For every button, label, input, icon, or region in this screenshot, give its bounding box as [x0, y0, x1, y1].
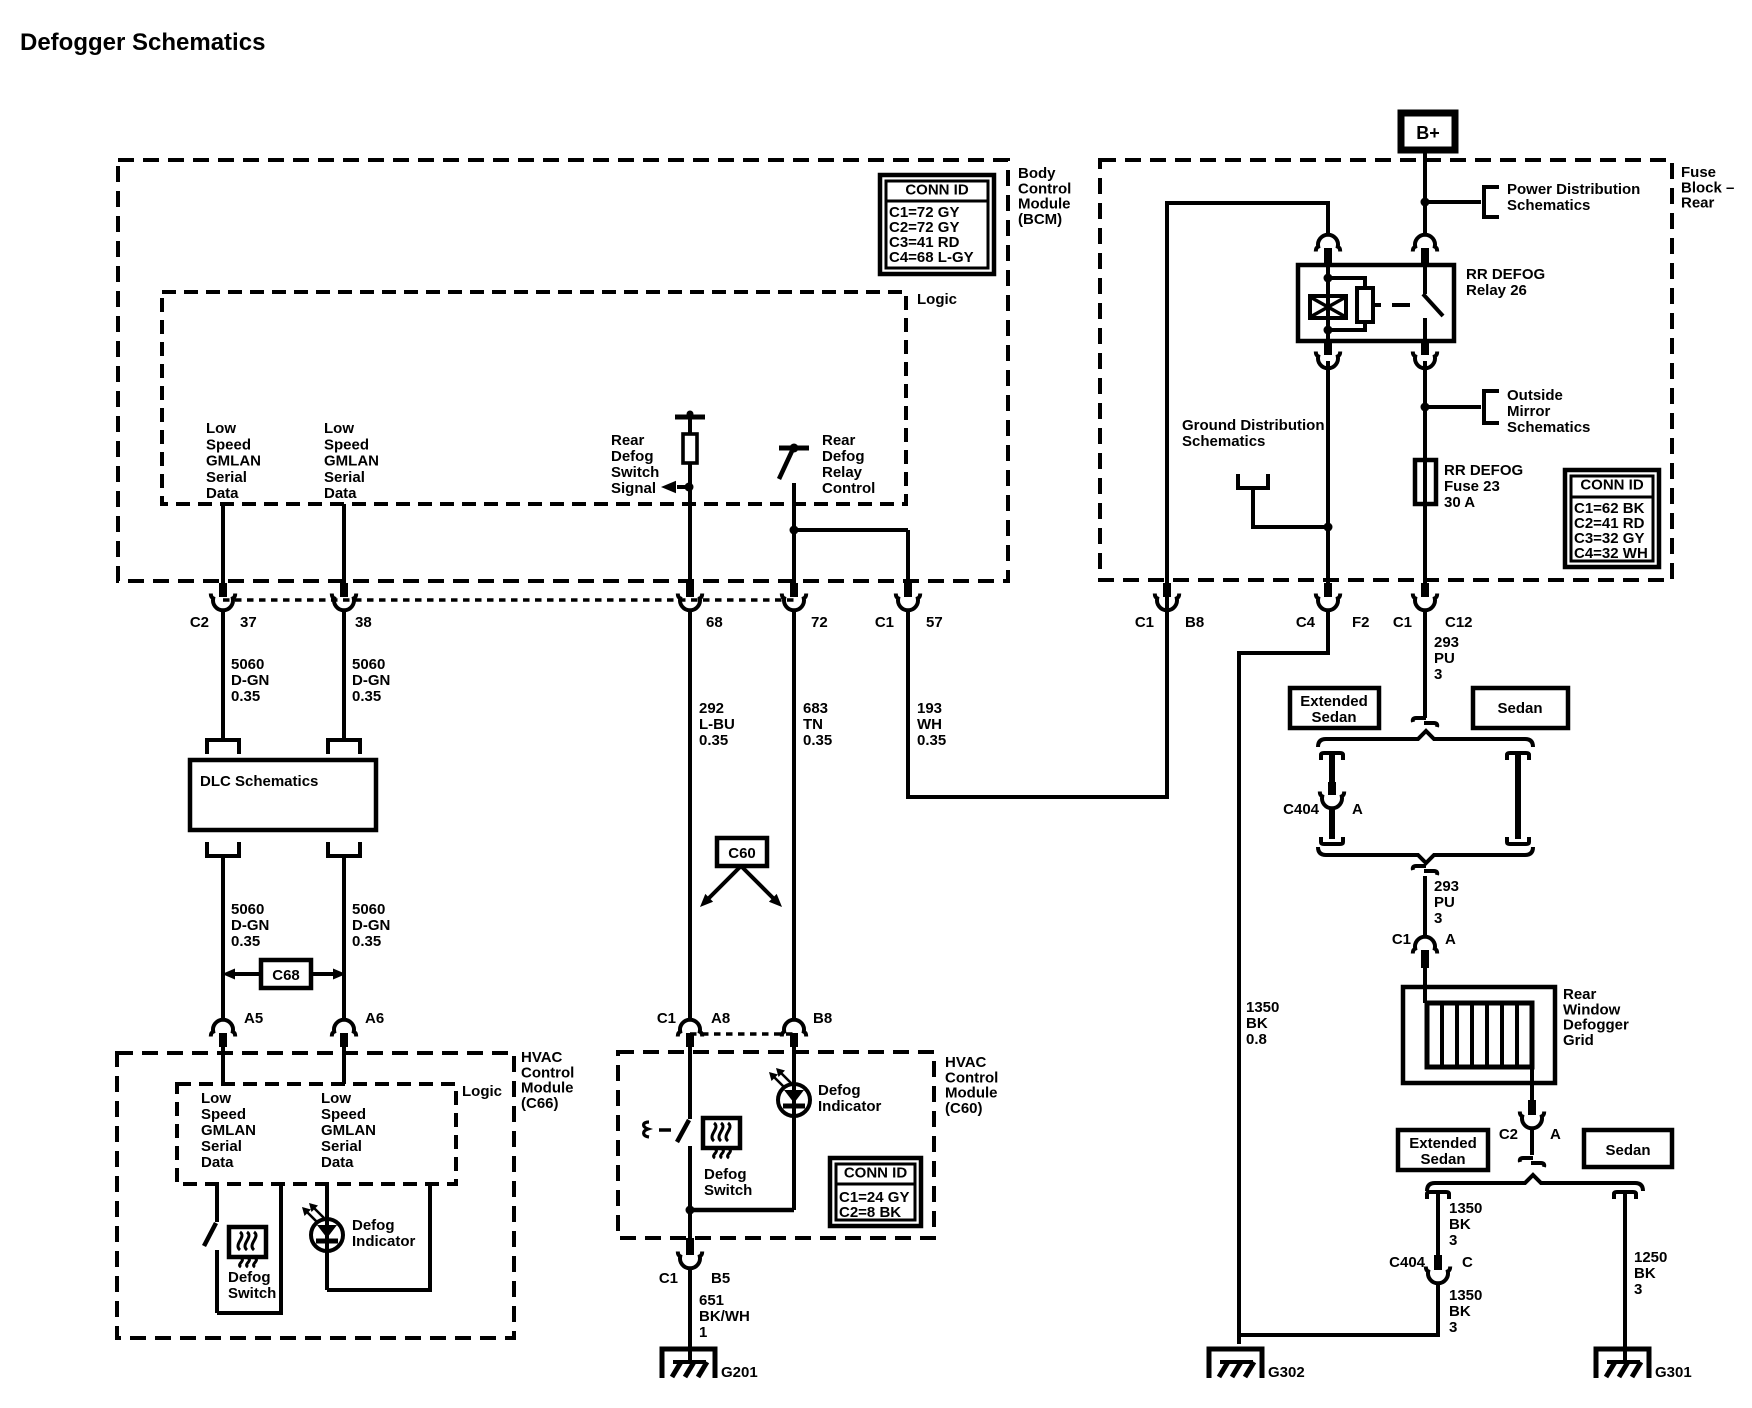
- logic box (BCM): [162, 292, 906, 504]
- connector HVAC C66 pin A5: [211, 1010, 263, 1047]
- svg-text:57: 57: [926, 614, 943, 631]
- ground G201: [662, 1349, 758, 1381]
- svg-text:C404: C404: [1283, 801, 1320, 818]
- svg-text:Mirror: Mirror: [1507, 403, 1551, 420]
- svg-text:A5: A5: [244, 1010, 263, 1027]
- svg-text:C1: C1: [657, 1010, 676, 1027]
- harness dotted line (BCM C1/C2 row): [223, 598, 794, 602]
- svg-text:A: A: [1352, 801, 1363, 818]
- harness leg: extended sedan upper: [1329, 753, 1335, 790]
- svg-text:Low: Low: [206, 420, 236, 437]
- wire: grid output: [1530, 1067, 1534, 1100]
- svg-text:293: 293: [1434, 634, 1459, 651]
- svg-text:B5: B5: [711, 1270, 730, 1287]
- svg-text:Relay 26: Relay 26: [1466, 282, 1527, 299]
- wire label: 651 BK/WH 1: [699, 1292, 750, 1341]
- page ref bracket: outside mirror: [1484, 391, 1499, 423]
- module box: Body Control Module (BCM): [118, 160, 1008, 581]
- connector C404 pin A: [1283, 782, 1363, 818]
- svg-text:293: 293: [1434, 878, 1459, 895]
- svg-text:5060: 5060: [231, 656, 264, 673]
- icon: heated rear window (C60): [703, 1118, 740, 1158]
- node label: Low Speed GMLAN Serial Data (pin 37): [206, 420, 261, 502]
- relay RR DEFOG Relay 26 box: [1298, 265, 1454, 341]
- svg-text:Logic: Logic: [917, 291, 957, 308]
- node: rear defog switch signal supply bar: [675, 411, 705, 418]
- wire: relay coil to C4 F2: [1326, 361, 1330, 586]
- svg-text:0.35: 0.35: [917, 732, 946, 749]
- module box: HVAC Control Module (C60): [618, 1052, 934, 1238]
- connector callout C68: [222, 960, 346, 988]
- svg-text:5060: 5060: [352, 901, 385, 918]
- svg-text:72: 72: [811, 614, 828, 631]
- svg-text:B8: B8: [1185, 614, 1204, 631]
- power node: B+: [1401, 113, 1455, 150]
- wire: relay control branch to pin 57: [790, 526, 909, 587]
- label: Rear Window Defogger Grid: [1563, 986, 1629, 1049]
- svg-text:3: 3: [1449, 1319, 1457, 1336]
- wire: resistor to pin 68: [688, 463, 692, 586]
- svg-text:Switch: Switch: [611, 464, 659, 481]
- label: Power Distribution Schematics: [1507, 181, 1640, 214]
- svg-text:PU: PU: [1434, 894, 1455, 911]
- svg-text:BK: BK: [1246, 1015, 1268, 1032]
- connector C1 pin 57: [875, 583, 943, 631]
- svg-text:Switch: Switch: [228, 1285, 276, 1302]
- title: Defogger Schematics: [20, 29, 265, 56]
- svg-text:BK: BK: [1449, 1216, 1471, 1233]
- svg-text:G301: G301: [1655, 1364, 1692, 1381]
- connector C2 pin 37: [190, 583, 257, 631]
- svg-text:Extended: Extended: [1409, 1135, 1477, 1152]
- svg-text:(C66): (C66): [521, 1095, 559, 1112]
- svg-text:Signal: Signal: [611, 480, 656, 497]
- svg-text:C4: C4: [1296, 614, 1316, 631]
- svg-text:A6: A6: [365, 1010, 384, 1027]
- wire label: 683 TN 0.35: [803, 700, 832, 749]
- harness leg: sedan: [1515, 753, 1521, 839]
- label: Defog Indicator (C66): [352, 1217, 416, 1250]
- svg-text:Logic: Logic: [462, 1083, 502, 1100]
- wire: circuit 293 to grid connector: [1423, 876, 1427, 938]
- svg-text:0.35: 0.35: [699, 732, 728, 749]
- svg-text:PU: PU: [1434, 650, 1455, 667]
- wire: B+ feed: [1423, 150, 1427, 235]
- wire: connector to grid: [1423, 968, 1427, 1003]
- wire: branch to outside mirror: [1425, 405, 1481, 409]
- connector: relay switch bottom pin: [1413, 341, 1437, 368]
- switch: rear defog relay control driver: [779, 444, 809, 480]
- svg-text:Data: Data: [201, 1154, 234, 1171]
- svg-text:Schematics: Schematics: [1507, 419, 1590, 436]
- wire: A5 into logic box: [221, 1047, 225, 1084]
- svg-text:Switch: Switch: [704, 1182, 752, 1199]
- svg-text:Grid: Grid: [1563, 1032, 1594, 1049]
- wire: defog indicator return loop (C66): [327, 1184, 430, 1290]
- svg-text:C68: C68: [272, 967, 300, 984]
- wire: circuit 292 pin68 to HVAC A8: [688, 610, 692, 1020]
- label: Defog Switch (C60): [704, 1166, 752, 1199]
- svg-text:BK/WH: BK/WH: [699, 1308, 750, 1325]
- wire label: 293 PU 3 (lower): [1434, 878, 1459, 927]
- harness leg bracket: sedan top: [1507, 753, 1529, 760]
- node: rear defog switch signal sense junction: [661, 481, 694, 494]
- connector C1 pin A (grid): [1392, 931, 1456, 968]
- svg-text:1350: 1350: [1449, 1287, 1482, 1304]
- connector fuse block pin B8: [1135, 583, 1204, 631]
- connector callout C60: [700, 838, 782, 907]
- variant box: Sedan (upper): [1473, 688, 1568, 728]
- variant brace top: [1318, 731, 1533, 747]
- inline splice symbol (grid out): [1520, 1158, 1544, 1167]
- svg-text:Sedan: Sedan: [1605, 1142, 1650, 1159]
- harness leg bracket: extended sedan top: [1321, 753, 1343, 760]
- wire: supply to resistor: [688, 417, 692, 434]
- connector-ID table (BCM): [880, 175, 994, 274]
- connector: relay switch top pin: [1413, 235, 1437, 266]
- svg-text:F2: F2: [1352, 614, 1370, 631]
- node: outside mirror junction: [1421, 403, 1430, 412]
- switch: defog switch (C60): [677, 1047, 690, 1210]
- svg-text:Schematics: Schematics: [1507, 197, 1590, 214]
- svg-text:C1: C1: [659, 1270, 678, 1287]
- svg-text:Rear: Rear: [1681, 195, 1715, 212]
- connector C2 pin 38: [332, 583, 372, 631]
- svg-text:G201: G201: [721, 1364, 758, 1381]
- svg-text:Defog: Defog: [611, 448, 654, 465]
- wire label: 193 WH 0.35: [917, 700, 946, 749]
- wire: circuit 1250 BK 3: [1623, 1192, 1627, 1363]
- connector-ID table (fuse block): [1565, 470, 1659, 567]
- svg-text:0.35: 0.35: [231, 688, 260, 705]
- svg-text:651: 651: [699, 1292, 724, 1309]
- svg-text:Defog: Defog: [822, 448, 865, 465]
- label: HVAC Control Module (C60): [945, 1054, 998, 1117]
- svg-text:Indicator: Indicator: [818, 1098, 882, 1115]
- svg-text:Rear: Rear: [822, 432, 856, 449]
- switch: defog switch (C66): [204, 1184, 217, 1313]
- page ref bracket: power distribution: [1484, 187, 1499, 217]
- rear window defogger grid: [1403, 987, 1555, 1083]
- wire: circuit 1350 BK 3 upper: [1436, 1192, 1440, 1255]
- svg-text:BK: BK: [1634, 1265, 1656, 1282]
- svg-text:C2=8 BK: C2=8 BK: [839, 1204, 901, 1221]
- connector fuse block pin C12: [1393, 583, 1473, 631]
- svg-text:GMLAN: GMLAN: [206, 453, 261, 470]
- svg-text:Power Distribution: Power Distribution: [1507, 181, 1640, 198]
- wire: circuit 5060 pin38 to DLC: [342, 610, 346, 740]
- svg-text:Sedan: Sedan: [1311, 709, 1356, 726]
- connector bracket: DLC bottom pin 38: [328, 842, 360, 856]
- svg-text:B+: B+: [1416, 123, 1440, 143]
- svg-text:3: 3: [1434, 910, 1442, 927]
- svg-text:TN: TN: [803, 716, 823, 733]
- connector C1 pin 72: [782, 583, 828, 631]
- svg-text:0.35: 0.35: [352, 688, 381, 705]
- connector HVAC C60 pin A8: [657, 1010, 730, 1047]
- svg-text:Sedan: Sedan: [1420, 1151, 1465, 1168]
- svg-text:1350: 1350: [1449, 1200, 1482, 1217]
- resistor: rear defog switch signal pull-up: [683, 434, 697, 463]
- connector: relay coil top pin: [1316, 235, 1340, 266]
- wire: circuit 1350 BK 3 lower: [1239, 1282, 1438, 1335]
- svg-text:Low: Low: [321, 1090, 351, 1107]
- svg-text:A: A: [1550, 1126, 1561, 1143]
- harness leg: extended sedan lower: [1329, 807, 1335, 839]
- wire: A6 into logic box: [342, 1047, 346, 1084]
- wire label: 292 L-BU 0.35: [699, 700, 735, 749]
- connector-ID table (C60): [830, 1158, 921, 1226]
- svg-text:CONN ID: CONN ID: [1580, 477, 1644, 494]
- ground G301: [1596, 1349, 1692, 1381]
- wire: circuit 1350 BK 0.8 to ground: [1239, 610, 1328, 1344]
- variant brace (ground side): [1427, 1175, 1643, 1191]
- icon: heated rear window (C66): [229, 1227, 266, 1267]
- svg-text:Data: Data: [324, 485, 357, 502]
- ground G302: [1209, 1349, 1305, 1381]
- label: RR DEFOG Relay 26: [1466, 266, 1545, 299]
- harness leg bracket: sedan bottom: [1507, 837, 1529, 844]
- fuse: RR DEFOG Fuse 23 30A: [1415, 460, 1436, 504]
- svg-text:Indicator: Indicator: [352, 1233, 416, 1250]
- wire label: 5060 D-GN 0.35 (A6): [352, 901, 390, 950]
- variant brace bottom: [1318, 847, 1533, 863]
- svg-text:38: 38: [355, 614, 372, 631]
- svg-text:C1: C1: [1135, 614, 1154, 631]
- svg-text:RR DEFOG: RR DEFOG: [1466, 266, 1545, 283]
- connector: relay coil bottom pin: [1316, 341, 1340, 368]
- label: Body Control Module (BCM): [1018, 165, 1071, 228]
- connector HVAC C66 pin A6: [332, 1010, 384, 1047]
- svg-text:D-GN: D-GN: [231, 917, 269, 934]
- node: B+ junction: [1421, 198, 1430, 207]
- label: Fuse Block - Rear: [1681, 164, 1734, 212]
- svg-text:0.35: 0.35: [803, 732, 832, 749]
- svg-text:RR DEFOG: RR DEFOG: [1444, 462, 1523, 479]
- label: Logic (C66): [462, 1083, 502, 1100]
- svg-text:3: 3: [1634, 1281, 1642, 1298]
- svg-text:Data: Data: [321, 1154, 354, 1171]
- svg-text:Outside: Outside: [1507, 387, 1563, 404]
- label: Defog Indicator (C60): [818, 1082, 882, 1115]
- wire: fuse to C1 C12: [1423, 504, 1427, 586]
- wire label: 5060 D-GN 0.35 (pin 38): [352, 656, 390, 705]
- svg-text:C2: C2: [190, 614, 209, 631]
- inline splice symbol (below variant brace): [1413, 866, 1437, 875]
- svg-text:Ground Distribution: Ground Distribution: [1182, 417, 1324, 434]
- svg-text:GMLAN: GMLAN: [321, 1122, 376, 1139]
- wire: DLC to HVAC A5: [221, 856, 225, 1020]
- svg-text:D-GN: D-GN: [231, 672, 269, 689]
- label: Logic (BCM): [917, 291, 957, 308]
- wire: circuit 651 to ground: [688, 1267, 692, 1363]
- connector C1 pin 68: [678, 583, 723, 631]
- svg-text:68: 68: [706, 614, 723, 631]
- svg-text:C1: C1: [875, 614, 894, 631]
- label: Ground Distribution Schematics: [1182, 417, 1324, 450]
- svg-text:C4=32 WH: C4=32 WH: [1574, 545, 1648, 562]
- svg-text:Defog: Defog: [228, 1269, 271, 1286]
- node: defog switch output junction: [686, 1206, 695, 1215]
- connector bracket: DLC top pin 37: [207, 740, 239, 754]
- label: Rear Defog Relay Control: [822, 432, 875, 497]
- svg-text:Rear: Rear: [611, 432, 645, 449]
- svg-text:Speed: Speed: [321, 1106, 366, 1123]
- connector HVAC C60 pin B8: [782, 1010, 832, 1047]
- svg-text:Extended: Extended: [1300, 693, 1368, 710]
- svg-text:5060: 5060: [352, 656, 385, 673]
- connector fuse block pin F2: [1296, 583, 1370, 631]
- svg-text:193: 193: [917, 700, 942, 717]
- variant box: Extended Sedan (lower): [1398, 1130, 1488, 1170]
- svg-text:Defog: Defog: [704, 1166, 747, 1183]
- harness dotted line (HVAC C60 row): [690, 1032, 794, 1036]
- module box: Fuse Block - Rear: [1100, 160, 1672, 580]
- wire: circuit 5060 pin37 to DLC: [221, 610, 225, 740]
- svg-text:0.35: 0.35: [352, 933, 381, 950]
- wire: relay switch output: [1423, 361, 1427, 460]
- variant box: Sedan (lower): [1584, 1130, 1672, 1167]
- wire label: 293 PU 3 (upper): [1434, 634, 1459, 683]
- svg-text:37: 37: [240, 614, 257, 631]
- relay coil parallel resistor: [1328, 278, 1373, 330]
- svg-text:Speed: Speed: [201, 1106, 246, 1123]
- connector bracket: DLC top pin 38: [328, 740, 360, 754]
- svg-text:C4=68 L-GY: C4=68 L-GY: [889, 249, 974, 266]
- relay coil: [1310, 265, 1346, 341]
- svg-text:GMLAN: GMLAN: [201, 1122, 256, 1139]
- svg-text:C1: C1: [1392, 931, 1411, 948]
- wire label: 1350 BK 0.8: [1246, 999, 1279, 1048]
- wire: circuit 293 from C12: [1423, 610, 1427, 718]
- relay internal link: [1373, 303, 1410, 307]
- svg-text:292: 292: [699, 700, 724, 717]
- svg-text:CONN ID: CONN ID: [844, 1165, 908, 1182]
- LED: defog indicator (C60): [769, 1047, 810, 1210]
- svg-text:C12: C12: [1445, 614, 1473, 631]
- wire: grid out to splice: [1530, 1127, 1534, 1155]
- node label: Low Speed GMLAN Serial Data (C66 right): [321, 1090, 376, 1171]
- harness leg bracket: extended sedan bottom: [1321, 837, 1343, 844]
- harness leg bracket: extended sedan ground: [1427, 1192, 1449, 1199]
- connector bracket: DLC bottom pin 37: [207, 842, 239, 856]
- connector C404 pin C: [1389, 1254, 1473, 1283]
- svg-text:Serial: Serial: [201, 1138, 242, 1155]
- connector C1 pin B5: [659, 1238, 730, 1287]
- svg-text:C2: C2: [1499, 1126, 1518, 1143]
- svg-text:D-GN: D-GN: [352, 672, 390, 689]
- svg-text:C404: C404: [1389, 1254, 1426, 1271]
- connector C2 pin A (grid out): [1499, 1100, 1561, 1143]
- wire: GMLAN serial data pin 37 inside BCM: [221, 504, 225, 586]
- wire label: 1250 BK 3: [1634, 1249, 1667, 1298]
- svg-text:Control: Control: [822, 480, 875, 497]
- svg-text:C1: C1: [1393, 614, 1412, 631]
- svg-text:Sedan: Sedan: [1497, 700, 1542, 717]
- svg-text:30 A: 30 A: [1444, 494, 1475, 511]
- box: DLC Schematics: [190, 760, 376, 830]
- svg-text:3: 3: [1449, 1232, 1457, 1249]
- wire: B8 riser to relay coil: [1167, 203, 1328, 610]
- svg-text:L-BU: L-BU: [699, 716, 735, 733]
- LED: defog indicator (C66): [302, 1184, 343, 1290]
- label: HVAC Control Module (C66): [521, 1049, 574, 1112]
- svg-text:A8: A8: [711, 1010, 730, 1027]
- wire: defog switch return loop (C66): [217, 1184, 281, 1313]
- svg-text:Defog: Defog: [352, 1217, 395, 1234]
- svg-text:A: A: [1445, 931, 1456, 948]
- svg-text:Speed: Speed: [206, 436, 251, 453]
- logic box (C66): [177, 1084, 456, 1184]
- svg-text:Fuse 23: Fuse 23: [1444, 478, 1500, 495]
- svg-text:B8: B8: [813, 1010, 832, 1027]
- relay switch: [1423, 265, 1443, 341]
- svg-text:D-GN: D-GN: [352, 917, 390, 934]
- svg-text:Speed: Speed: [324, 436, 369, 453]
- svg-text:1: 1: [699, 1324, 707, 1341]
- wire: relay control to pin 72: [792, 483, 796, 586]
- variant box: Extended Sedan (upper): [1290, 688, 1379, 728]
- svg-text:Relay: Relay: [822, 464, 863, 481]
- wire label: 5060 D-GN 0.35 (A5): [231, 901, 269, 950]
- harness leg bracket: sedan ground: [1614, 1192, 1636, 1199]
- label: Defog Switch (C66): [228, 1269, 276, 1302]
- svg-text:Data: Data: [206, 485, 239, 502]
- wire label: 1350 BK 3 (lower): [1449, 1287, 1482, 1336]
- module box: HVAC Control Module (C66): [117, 1053, 514, 1338]
- wire: switch output to pin B5: [688, 1210, 692, 1238]
- switch actuator (C60): [644, 1122, 671, 1137]
- svg-text:Serial: Serial: [324, 469, 365, 486]
- label: RR DEFOG Fuse 23 30 A: [1444, 462, 1523, 511]
- svg-text:CONN ID: CONN ID: [905, 182, 969, 199]
- svg-text:5060: 5060: [231, 901, 264, 918]
- inline splice symbol (below C12): [1413, 718, 1437, 727]
- wire: DLC to HVAC A6: [342, 856, 346, 1020]
- node: ground distribution junction: [1324, 523, 1333, 532]
- svg-text:683: 683: [803, 700, 828, 717]
- svg-text:(C60): (C60): [945, 1100, 983, 1117]
- wire: junction to indicator branch: [690, 1208, 794, 1213]
- label: Outside Mirror Schematics: [1507, 387, 1590, 436]
- svg-text:G302: G302: [1268, 1364, 1305, 1381]
- svg-text:WH: WH: [917, 716, 942, 733]
- svg-text:1250: 1250: [1634, 1249, 1667, 1266]
- svg-text:C60: C60: [728, 845, 756, 862]
- svg-text:Schematics: Schematics: [1182, 433, 1265, 450]
- svg-text:3: 3: [1434, 666, 1442, 683]
- svg-text:DLC Schematics: DLC Schematics: [200, 773, 318, 790]
- svg-text:(BCM): (BCM): [1018, 211, 1062, 228]
- svg-text:1350: 1350: [1246, 999, 1279, 1016]
- wire label: 1350 BK 3 (upper): [1449, 1200, 1482, 1249]
- svg-text:BK: BK: [1449, 1303, 1471, 1320]
- svg-text:Low: Low: [324, 420, 354, 437]
- svg-text:Serial: Serial: [321, 1138, 362, 1155]
- svg-text:Defog: Defog: [818, 1082, 861, 1099]
- node label: Low Speed GMLAN Serial Data (pin 38): [324, 420, 379, 502]
- wire label: 5060 D-GN 0.35 (pin 37): [231, 656, 269, 705]
- wire: GMLAN serial data pin 38 inside BCM: [342, 504, 346, 586]
- svg-text:C: C: [1462, 1254, 1473, 1271]
- wire: branch to power distribution: [1425, 200, 1481, 204]
- svg-text:GMLAN: GMLAN: [324, 453, 379, 470]
- node label: Low Speed GMLAN Serial Data (C66 left): [201, 1090, 256, 1171]
- svg-text:0.35: 0.35: [231, 933, 260, 950]
- svg-text:Low: Low: [201, 1090, 231, 1107]
- wire: circuit 683 pin72 to HVAC B8: [792, 610, 796, 1020]
- svg-text:Defogger Schematics: Defogger Schematics: [20, 29, 265, 56]
